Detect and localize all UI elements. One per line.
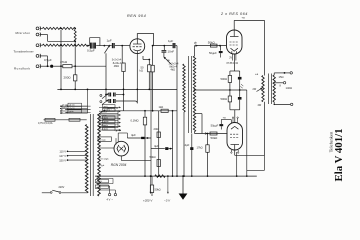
- svg-text:rt.(gb.: rt.(gb.: [99, 164, 105, 167]
- svg-text:4 V ∼: 4 V ∼: [107, 198, 115, 202]
- svg-text:17kΩ: 17kΩ: [197, 145, 203, 149]
- svg-text:127 V: 127 V: [59, 154, 66, 158]
- svg-text:+a: +a: [255, 73, 259, 76]
- svg-text:50µµF: 50µµF: [211, 123, 219, 127]
- svg-text:gb/br: gb/br: [69, 111, 74, 113]
- svg-text:50kΩ: 50kΩ: [150, 155, 156, 159]
- svg-text:+a: +a: [242, 17, 246, 20]
- svg-text:gb/gr: gb/gr: [104, 128, 109, 131]
- svg-text:0,5µF: 0,5µF: [87, 48, 95, 52]
- svg-text:150 V: 150 V: [59, 158, 66, 162]
- svg-text:10nF: 10nF: [168, 50, 175, 54]
- svg-text:ge: ge: [167, 59, 170, 62]
- svg-text:4W: 4W: [258, 104, 262, 107]
- svg-text:15Ω: 15Ω: [279, 75, 284, 79]
- svg-text:2W: 2W: [253, 88, 257, 91]
- svg-text:1kΩ: 1kΩ: [159, 105, 164, 109]
- svg-text:50kΩ: 50kΩ: [155, 188, 161, 192]
- svg-text:Ela V 401/1: Ela V 401/1: [333, 129, 345, 182]
- svg-text:50kΩ: 50kΩ: [211, 136, 219, 140]
- svg-text:500Ω: 500Ω: [221, 77, 228, 81]
- svg-text:4kΩ: 4kΩ: [171, 69, 176, 72]
- svg-text:gb: gb: [194, 42, 197, 45]
- svg-text:gn/rt (1gb.: gn/rt (1gb.: [99, 158, 109, 161]
- svg-text:Rundfunk: Rundfunk: [14, 66, 30, 70]
- svg-text:0,5µF: 0,5µF: [44, 58, 52, 62]
- svg-text:8: 8: [280, 85, 282, 88]
- svg-text:+200 V: +200 V: [143, 199, 153, 203]
- svg-text:0,75·0,5·0,6A: 0,75·0,5·0,6A: [38, 122, 53, 125]
- svg-text:4µF: 4µF: [185, 143, 190, 147]
- svg-text:4MΩ: 4MΩ: [114, 65, 119, 68]
- svg-text:ge/rt: ge/rt: [104, 105, 108, 108]
- svg-text:−3 V: −3 V: [164, 199, 171, 203]
- svg-text:2V: 2V: [229, 57, 232, 60]
- svg-text:sw/gb: sw/gb: [104, 121, 109, 123]
- svg-text:20Ω: 20Ω: [154, 127, 159, 131]
- svg-text:140Ω: 140Ω: [286, 86, 293, 90]
- svg-text:2 x RES 064: 2 x RES 064: [220, 12, 248, 16]
- svg-text:4µF: 4µF: [131, 133, 136, 137]
- svg-text:500Ω: 500Ω: [221, 97, 228, 101]
- svg-text:+a: +a: [223, 116, 227, 119]
- svg-text:REN 904: REN 904: [127, 14, 146, 18]
- svg-text:gb/gr (2: gb/gr (2: [104, 109, 111, 112]
- svg-text:220V: 220V: [59, 186, 65, 189]
- svg-text:0,1MΩ: 0,1MΩ: [131, 118, 139, 122]
- svg-text:1µF: 1µF: [107, 39, 112, 43]
- svg-text:4µF: 4µF: [154, 144, 159, 148]
- svg-text:200Ω: 200Ω: [64, 76, 72, 80]
- svg-text:RGN 2004: RGN 2004: [111, 163, 127, 167]
- svg-text:gb/gr: gb/gr: [104, 116, 109, 119]
- svg-text:kΩ: kΩ: [140, 69, 143, 73]
- svg-text:gb/12r: gb/12r: [96, 180, 102, 183]
- svg-text:1µF: 1µF: [168, 39, 173, 43]
- svg-text:Mikrofon: Mikrofon: [16, 31, 31, 35]
- svg-text:gb/br: gb/br: [96, 186, 101, 189]
- svg-text:110 V: 110 V: [59, 150, 66, 154]
- svg-text:50µµF: 50µµF: [209, 51, 217, 55]
- svg-text:gn/gr: gn/gr: [104, 124, 109, 127]
- svg-text:Tonabnehmer: Tonabnehmer: [14, 49, 34, 53]
- svg-text:37 88 1 32: 37 88 1 32: [226, 62, 238, 65]
- svg-text:(1/gn: (1/gn: [96, 176, 102, 178]
- svg-text:1n (ge.: 1n (ge.: [99, 139, 106, 141]
